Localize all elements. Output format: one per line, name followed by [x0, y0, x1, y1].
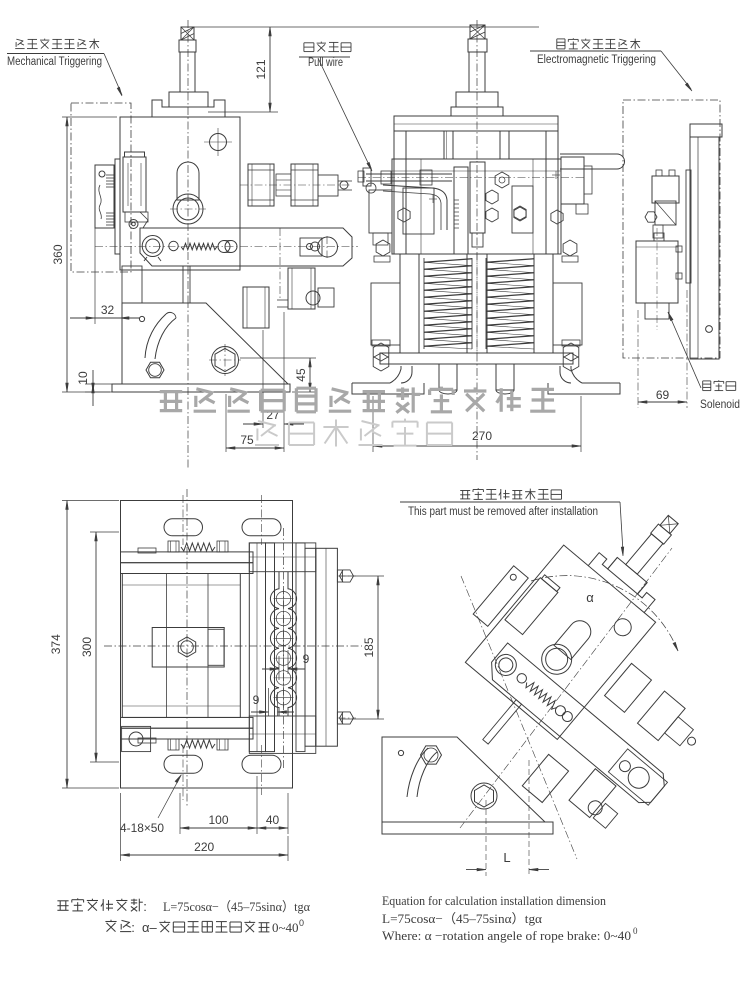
view1 main body	[120, 117, 240, 270]
formula right line3	[382, 926, 638, 943]
view2 center rod	[467, 254, 487, 353]
view1 roller left	[240, 164, 352, 206]
label Solenoid	[700, 397, 740, 411]
dim 185 vertical	[340, 576, 384, 719]
dim 27 horizontal	[243, 312, 304, 452]
view4 clamp bottom cap	[249, 716, 315, 753]
svg-text:Pull wire: Pull wire	[308, 57, 343, 69]
view1 shaft	[180, 52, 195, 92]
formula right line2	[382, 911, 542, 926]
view4 clamp plate D	[305, 548, 316, 746]
svg-text:32: 32	[101, 303, 115, 317]
svg-text:185: 185	[362, 637, 376, 657]
view4 rope centerline	[283, 528, 285, 770]
view4 body	[122, 574, 240, 718]
view2 body block left	[403, 188, 434, 234]
view1 arm roller pair	[218, 241, 237, 253]
svg-text:75: 75	[240, 433, 254, 447]
label removed part EN	[408, 506, 598, 518]
view1 gusset plate	[122, 303, 288, 384]
view1 link below arm	[122, 266, 190, 303]
svg-text:4-18×50: 4-18×50	[120, 821, 164, 835]
view3 solenoid clips	[676, 246, 682, 279]
watermark line2	[255, 419, 452, 447]
view4 side bolt top	[337, 570, 356, 582]
view5 curved slot	[407, 746, 442, 797]
dim L	[466, 760, 549, 876]
label solenoid CJK	[703, 380, 736, 390]
view2 pull wire rod	[366, 170, 452, 230]
view4 clamp top cap	[249, 543, 315, 572]
view4 clamp plate A	[249, 543, 265, 752]
view4 bottom spring	[138, 738, 228, 750]
view1 cam follower	[125, 212, 148, 229]
svg-text:121: 121	[254, 59, 268, 79]
view1 arm centerline	[95, 246, 358, 248]
view2 spring left	[424, 258, 472, 349]
view2 center plate	[454, 167, 468, 254]
view2 bottom plate	[380, 353, 573, 364]
view3 solenoid body	[636, 233, 678, 303]
view2 step1	[456, 92, 498, 107]
svg-text:L=75cosα−（45–75sinα）tgα: L=75cosα−（45–75sinα）tgα	[382, 911, 542, 926]
view4 clamp plate C	[296, 543, 305, 752]
label Mechanical Triggering	[7, 56, 102, 68]
svg-text:220: 220	[194, 840, 214, 854]
svg-text:0: 0	[299, 918, 304, 928]
view2 right rounded arm	[560, 154, 625, 169]
label em trigger CJK	[557, 38, 640, 49]
dim 75 horizontal	[226, 394, 284, 452]
svg-text:40: 40	[266, 813, 280, 827]
view5 rotated brake body	[409, 460, 750, 856]
view1 left thin plate	[115, 159, 120, 254]
view4 rope channel	[270, 572, 296, 716]
formula left line2	[105, 918, 304, 935]
view4 top rail	[121, 552, 254, 574]
formula left line1	[57, 898, 310, 914]
view2 right bracket	[561, 157, 592, 214]
view3 trigger box	[652, 170, 679, 225]
dim 220 horizontal	[121, 793, 289, 861]
view2 shaft threaded tip	[470, 25, 485, 39]
view1 curved slot	[145, 312, 176, 377]
svg-text:L=75cosα−（45–75sinα）tgα: L=75cosα−（45–75sinα）tgα	[163, 899, 310, 914]
svg-text:69: 69	[656, 388, 670, 402]
view1 arm circlip	[142, 236, 163, 262]
view4 slot bottom-left	[164, 745, 203, 800]
view2 shaft	[469, 52, 485, 92]
view1 datum line top	[192, 26, 278, 28]
label removed underline+leader	[400, 502, 624, 556]
view4 centerline vertical	[186, 489, 188, 806]
view1 hex bolt	[209, 344, 241, 376]
view2 pull wire left fitting	[358, 168, 376, 193]
view1 lower roller right	[288, 268, 315, 309]
dim 300 vertical	[80, 532, 119, 762]
view5 triangle hole	[398, 750, 403, 755]
view4 centerline horizontal	[104, 645, 362, 647]
view2 left side block	[369, 190, 392, 245]
view3 mount strip	[686, 170, 691, 283]
svg-text:9: 9	[303, 652, 310, 666]
view3 back plate	[690, 137, 719, 359]
view1 shaft collar	[179, 40, 196, 52]
dim 4-18x50 label	[120, 775, 181, 835]
dim 69 horizontal	[638, 290, 687, 408]
view1 shaft base with ears	[152, 92, 225, 117]
view4 main plate	[121, 501, 293, 789]
view1 left bracket teeth	[106, 175, 114, 225]
svg-text:0~40: 0~40	[272, 920, 299, 935]
view3 solenoid plunger	[645, 303, 669, 319]
svg-text:α: α	[586, 590, 594, 605]
svg-text:Equation for calculation insta: Equation for calculation installation di…	[382, 893, 606, 908]
dim 100 horizontal	[180, 793, 257, 834]
view2 inner upright left	[444, 131, 453, 159]
view1 gusset small hole	[139, 316, 144, 321]
label mech underline+leader	[7, 54, 122, 97]
view3 plate hole	[706, 326, 713, 333]
view4 center block	[152, 628, 224, 668]
view5 diag centerline	[460, 548, 672, 859]
view2 inner upright right	[500, 131, 509, 159]
svg-text:360: 360	[51, 244, 65, 264]
label em underline+leader	[530, 51, 692, 91]
svg-text::: :	[143, 899, 147, 914]
view1 roller right	[291, 164, 318, 206]
view2 legs	[439, 364, 514, 394]
view3 solenoid centerline	[656, 228, 658, 330]
view2 centerline	[476, 20, 478, 460]
view2 outer bracket left	[371, 240, 400, 371]
view2 body block right	[512, 186, 533, 233]
view1 roller bolt	[318, 175, 352, 196]
view2 shaft collar	[468, 39, 487, 52]
view5 alpha arc	[531, 576, 678, 651]
view4 side bolt bottom	[337, 712, 356, 724]
view2 left post	[394, 131, 406, 254]
view2 spring housing right wall	[534, 254, 553, 353]
svg-text:45: 45	[294, 368, 308, 382]
view4 slot bottom-right	[242, 745, 281, 795]
view1 solenoid cylinder	[123, 152, 146, 212]
svg-text:100: 100	[208, 813, 228, 827]
svg-text:Where: α −rotation angele of: Where: α −rotation angele of rope brake:…	[382, 928, 631, 943]
label Electromagnetic Triggering	[537, 54, 656, 66]
view2 datum line top	[278, 26, 539, 28]
view2 spring housing left wall	[400, 254, 419, 353]
view1 target circle	[204, 128, 232, 156]
dim 45 vertical	[240, 358, 316, 392]
svg-text:9: 9	[253, 693, 260, 707]
view4 side plate E	[316, 548, 338, 746]
view1 slot capsule	[177, 162, 199, 200]
view4 clamp plate B	[266, 543, 275, 752]
svg-text:300: 300	[80, 637, 94, 657]
view3 plate cap	[690, 124, 722, 137]
view1 shaft head step	[169, 92, 208, 107]
view1 link centerline	[279, 228, 281, 300]
view3 dash-dot box	[623, 100, 720, 358]
view1 dash-dot boundary box	[71, 103, 131, 272]
view4 left bottom bracket	[122, 726, 151, 751]
dim 10 vertical	[76, 370, 112, 406]
view2 main body	[392, 159, 561, 254]
view2 top rail	[394, 116, 558, 131]
svg-text:Electromagnetic Triggering: Electromagnetic Triggering	[537, 54, 656, 66]
svg-text:270: 270	[472, 429, 492, 443]
view1 arm small pin	[169, 241, 178, 250]
view2 body inner lines	[392, 159, 561, 254]
svg-text:L: L	[503, 850, 510, 865]
view2 right post	[546, 131, 558, 254]
svg-text:374: 374	[49, 634, 63, 654]
label pull underline+leader	[299, 57, 372, 171]
view1 lower roller bolt	[277, 288, 334, 307]
view1 pivot bushing	[170, 194, 206, 224]
svg-text:0: 0	[633, 926, 638, 936]
view5 hex bolt	[471, 783, 497, 809]
view1 roller center bolt	[276, 174, 291, 196]
watermark line1	[160, 387, 556, 413]
view2 step2	[451, 107, 503, 116]
view1 arm spring	[181, 243, 217, 249]
label removed part CJK	[460, 488, 561, 500]
dim 9 upper	[262, 650, 310, 680]
dim 9 lower	[251, 688, 294, 716]
view1 centerline	[187, 20, 189, 468]
view2 outer bracket right	[553, 240, 582, 371]
view2 right foot	[548, 366, 620, 394]
label mech trigger CJK	[15, 39, 99, 50]
view3 trigger hex	[645, 212, 663, 238]
view1 left bracket	[95, 165, 114, 228]
view2 left foot	[352, 366, 424, 394]
view2 plunger	[470, 162, 485, 247]
label Pull wire	[308, 57, 343, 69]
label pull wire CJK	[304, 42, 351, 52]
formula right line1	[382, 893, 606, 908]
svg-text:Solenoid: Solenoid	[700, 397, 740, 411]
view1 bottom flange	[112, 384, 290, 392]
view4 top spring	[138, 541, 228, 553]
dim 32 horizontal	[70, 228, 140, 324]
view2 spring right	[486, 258, 534, 349]
label solenoid leader	[668, 312, 701, 388]
view2 hex bolts on body	[398, 171, 563, 224]
svg-text:10: 10	[76, 371, 90, 385]
view1 shaft threaded tip	[181, 27, 194, 40]
dim 270 horizontal	[373, 396, 581, 452]
dim 360 vertical	[51, 117, 117, 392]
dim 374 vertical	[49, 501, 119, 789]
svg-text::: :	[131, 920, 135, 935]
svg-text:This part must be removed afte: This part must be removed after installa…	[408, 506, 598, 518]
view1 clevis block	[300, 236, 338, 258]
view2 pullwire centerline	[358, 177, 585, 179]
view4 bottom rail	[121, 717, 254, 739]
view4 slot top-right	[242, 495, 281, 545]
svg-text:α–: α–	[142, 920, 158, 935]
view1 lower roller left	[243, 287, 269, 328]
view5 flat triangle	[382, 737, 545, 822]
view1 lever arm	[140, 228, 352, 266]
view4 slot top-left	[164, 495, 203, 545]
dim 40 horizontal	[257, 776, 288, 834]
view5 triangle foot	[382, 822, 553, 834]
svg-text:Mechanical Triggering: Mechanical Triggering	[7, 56, 102, 68]
dim 121 vertical	[208, 27, 278, 112]
